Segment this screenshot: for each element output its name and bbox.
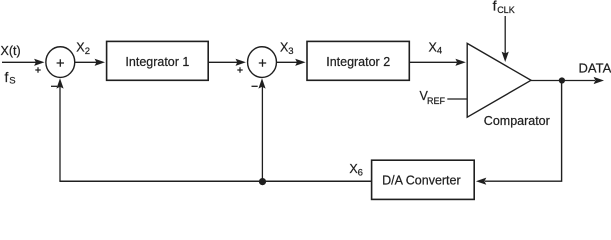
wire output down to D/A converter — [476, 81, 562, 185]
wire input arrow to summer S1 — [2, 59, 45, 66]
svg-text:S: S — [9, 76, 15, 87]
plus sign at S1 input — [35, 67, 40, 72]
svg-text:2: 2 — [85, 46, 90, 57]
label fS sampling frequency — [5, 69, 16, 87]
svg-text:6: 6 — [358, 168, 363, 179]
svg-text:Comparator: Comparator — [484, 114, 550, 128]
wire comparator output to DATA — [531, 77, 604, 84]
svg-text:CLK: CLK — [497, 5, 515, 15]
label fCLK clock — [493, 0, 515, 15]
block Integrator 2 — [307, 41, 409, 80]
label DATA output — [579, 61, 611, 76]
svg-text:D/A Converter: D/A Converter — [382, 173, 461, 187]
node X2 label — [76, 40, 90, 57]
wire feedback arrow up into S2 — [258, 78, 265, 181]
plus sign at S2 input — [237, 67, 242, 72]
minus sign at S1 feedback input — [51, 85, 57, 87]
svg-text:X(t): X(t) — [1, 44, 21, 58]
svg-text:f: f — [5, 69, 9, 85]
plus sign inside S1 — [57, 59, 64, 66]
wire fCLK arrow down into comparator — [502, 16, 509, 62]
wire Integrator 1 to summer S2 — [208, 59, 246, 66]
block Integrator 1 — [107, 41, 209, 80]
node X4 label — [429, 40, 443, 56]
label X(t) input signal — [1, 44, 21, 58]
wire S2 to Integrator 2 — [277, 59, 306, 66]
node output junction dot — [559, 77, 565, 83]
block D/A Converter — [372, 160, 475, 199]
comparator U1 triangle — [467, 43, 531, 117]
wire feedback arrow up into S1 — [56, 78, 63, 181]
node feedback junction dot — [259, 178, 266, 185]
plus sign inside S2 — [259, 59, 266, 66]
label Comparator — [484, 114, 550, 128]
svg-text:Integrator 1: Integrator 1 — [125, 55, 189, 69]
svg-text:3: 3 — [288, 46, 293, 57]
minus sign at S2 feedback input — [252, 85, 258, 87]
svg-text:REF: REF — [427, 96, 446, 106]
svg-text:DATA: DATA — [579, 61, 611, 76]
wire VREF to comparator — [447, 98, 466, 100]
label VREF reference voltage — [420, 89, 446, 106]
wire Integrator 2 to comparator — [409, 59, 466, 66]
svg-text:Integrator 2: Integrator 2 — [326, 55, 390, 69]
node X3 label — [280, 40, 293, 57]
svg-text:4: 4 — [437, 46, 442, 57]
node X6 label — [349, 162, 362, 179]
summing junction S1 — [46, 47, 75, 78]
wire S1 to Integrator 1 — [75, 59, 106, 66]
wire feedback D/A to summers — [59, 180, 371, 182]
summing junction S2 — [248, 47, 277, 78]
svg-text:f: f — [493, 0, 497, 13]
